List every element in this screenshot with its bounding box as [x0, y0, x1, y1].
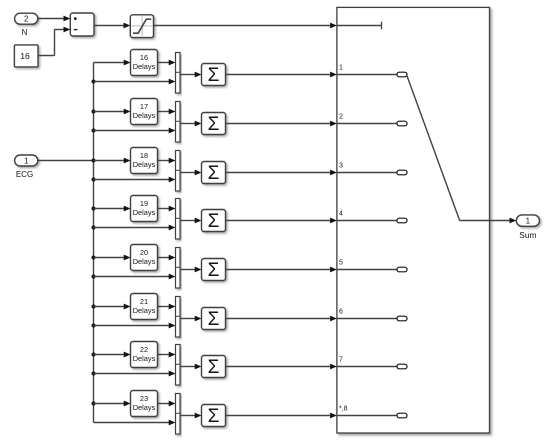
wire ECG to trunk	[38, 160, 94, 162]
switch port 7 line	[337, 366, 397, 368]
switch port 8 line	[337, 415, 397, 417]
wire trunk to delay 17	[94, 109, 131, 115]
wire sum to switch port 1	[226, 72, 337, 78]
wire mux to sum row 3	[180, 170, 202, 176]
switch contact 4	[397, 218, 407, 223]
wire mux to sum row 6	[180, 316, 202, 322]
sum block row 2	[202, 113, 226, 136]
wire mux to sum row 7	[180, 364, 202, 370]
wire trunk to delay 19	[94, 206, 131, 212]
wire delay 21 to mux	[158, 304, 176, 310]
bypass wire row 8	[94, 420, 176, 426]
bypass wire row 6	[94, 323, 176, 329]
svg-text:Σ: Σ	[208, 114, 220, 135]
delay block 16	[131, 50, 158, 76]
switch port label 2	[339, 114, 343, 121]
svg-text:Delays: Delays	[133, 208, 156, 217]
outport 1 (Sum)	[516, 215, 539, 226]
wire constant16 to divide	[38, 27, 70, 56]
delay block 22	[131, 342, 158, 368]
sum block row 5	[202, 259, 226, 282]
switch selector diagonal	[407, 76, 460, 221]
mux bar row 5	[176, 248, 181, 289]
wire delay 23 to mux	[158, 401, 176, 407]
svg-text:Delays: Delays	[133, 62, 156, 71]
svg-text:3: 3	[339, 163, 343, 170]
sum block row 8	[202, 405, 226, 428]
wire delay 20 to mux	[158, 255, 176, 261]
switch contact 5	[397, 267, 407, 272]
svg-text:Delays: Delays	[133, 111, 156, 120]
switch contact 7	[397, 364, 407, 369]
svg-text:Σ: Σ	[208, 65, 220, 86]
wire inport2 to divide	[38, 16, 71, 22]
svg-text:Delays: Delays	[133, 160, 156, 169]
switch port label 7	[339, 357, 343, 364]
svg-text:22: 22	[140, 345, 148, 354]
wire mux to sum row 1	[180, 72, 202, 78]
mux bar row 8	[176, 394, 181, 435]
svg-text:Sum: Sum	[519, 230, 536, 240]
wire trunk to delay 21	[94, 304, 131, 310]
switch port 1 line	[337, 74, 397, 76]
svg-text:N: N	[22, 28, 28, 37]
svg-text:ECG: ECG	[16, 170, 33, 179]
sum block row 6	[202, 308, 226, 331]
switch port 4 line	[337, 220, 397, 222]
switch port 6 line	[337, 318, 397, 320]
svg-text:16: 16	[140, 53, 148, 62]
switch port 2 line	[337, 123, 397, 125]
bypass wire row 2	[94, 128, 176, 134]
wire mux to sum row 8	[180, 413, 202, 419]
wire delay 17 to mux	[158, 109, 176, 115]
switch contact 2	[397, 121, 407, 126]
wire mux to sum row 4	[180, 218, 202, 224]
svg-text:20: 20	[140, 248, 148, 257]
inport 2 (N)	[15, 13, 38, 24]
svg-text:19: 19	[140, 199, 148, 208]
wire mux to sum row 2	[180, 121, 202, 127]
switch control line	[337, 22, 382, 30]
mux bar row 7	[176, 345, 181, 386]
svg-text:1: 1	[24, 156, 29, 165]
mux bar row 1	[176, 53, 181, 94]
svg-text:Delays: Delays	[133, 306, 156, 315]
wire delay 18 to mux	[158, 158, 176, 164]
switch contact 3	[397, 170, 407, 175]
svg-text:Σ: Σ	[208, 211, 220, 232]
svg-text:Σ: Σ	[208, 406, 220, 427]
saturation block	[130, 15, 153, 38]
trunk wire vertical	[93, 63, 95, 423]
svg-text:23: 23	[140, 394, 148, 403]
wire saturation to switch control	[154, 23, 337, 29]
svg-text:17: 17	[140, 102, 148, 111]
wire mux to sum row 5	[180, 267, 202, 273]
svg-text:5: 5	[339, 260, 343, 267]
svg-text:21: 21	[140, 297, 148, 306]
svg-text:Σ: Σ	[208, 357, 220, 378]
svg-text:1: 1	[526, 217, 531, 226]
wire delay 16 to mux	[158, 60, 176, 66]
label ECG	[16, 170, 33, 179]
wire sum to switch port 4	[226, 218, 337, 224]
wire sum to switch port 2	[226, 121, 337, 127]
label Sum	[519, 230, 536, 240]
svg-text:Delays: Delays	[133, 354, 156, 363]
sum block row 4	[202, 210, 226, 233]
wire sum to switch port 5	[226, 267, 337, 273]
switch port label 6	[339, 309, 343, 316]
wire delay 22 to mux	[158, 352, 176, 358]
wire sum to switch port 8	[226, 413, 337, 419]
svg-text:Delays: Delays	[133, 257, 156, 266]
delay block 19	[131, 196, 158, 222]
svg-text:4: 4	[339, 211, 343, 218]
mux bar row 6	[176, 297, 181, 338]
svg-text:2: 2	[339, 114, 343, 121]
mux bar row 3	[176, 151, 181, 192]
label N	[22, 28, 28, 37]
wire sum to switch port 6	[226, 316, 337, 322]
wire trunk to delay 16	[94, 60, 131, 66]
svg-text:Σ: Σ	[208, 260, 220, 281]
switch port 3 line	[337, 172, 397, 174]
inport 1 (ECG)	[15, 155, 38, 166]
mux bar row 4	[176, 199, 181, 240]
svg-text:Delays: Delays	[133, 403, 156, 412]
trunk junction dots	[92, 80, 96, 406]
svg-text:1: 1	[339, 65, 343, 72]
delay block 18	[131, 148, 158, 174]
bypass wire row 5	[94, 274, 176, 280]
switch output line inside	[460, 220, 490, 222]
switch port label 3	[339, 163, 343, 170]
switch contact 6	[397, 316, 407, 321]
svg-text:16: 16	[20, 51, 30, 61]
switch port label *,8	[339, 406, 348, 413]
wire trunk to delay 22	[94, 352, 131, 358]
bypass wire row 3	[94, 177, 176, 183]
sum block row 7	[202, 356, 226, 379]
switch port label 5	[339, 260, 343, 267]
svg-text:7: 7	[339, 357, 343, 364]
svg-text:*,8: *,8	[339, 406, 348, 413]
switch port label 4	[339, 211, 343, 218]
switch contact 8	[397, 413, 407, 418]
wire sum to switch port 3	[226, 170, 337, 176]
svg-text:6: 6	[339, 309, 343, 316]
constant 16	[14, 45, 38, 67]
divide block	[70, 13, 94, 36]
multiport switch block	[337, 7, 490, 433]
bypass wire row 4	[94, 225, 176, 231]
delay block 21	[131, 294, 158, 320]
svg-text:2: 2	[24, 15, 29, 24]
svg-text:Σ: Σ	[208, 309, 220, 330]
bypass wire row 7	[94, 371, 176, 377]
mux bar row 2	[176, 102, 181, 143]
wire trunk to delay 18	[94, 158, 131, 164]
wire divide to saturation	[94, 23, 130, 29]
svg-text:18: 18	[140, 151, 148, 160]
sum block row 3	[202, 162, 226, 185]
bypass wire row 1	[94, 79, 176, 85]
switch port label 1	[339, 65, 343, 72]
wire trunk to delay 20	[94, 255, 131, 261]
wire sum to switch port 7	[226, 364, 337, 370]
wire delay 19 to mux	[158, 206, 176, 212]
switch contact 1	[397, 72, 407, 77]
wire switch to outport	[490, 218, 517, 224]
sum block row 1	[202, 64, 226, 87]
delay block 23	[131, 391, 158, 417]
switch port 5 line	[337, 269, 397, 271]
wire trunk to delay 23	[94, 401, 131, 407]
delay block 20	[131, 245, 158, 271]
svg-text:Σ: Σ	[208, 163, 220, 184]
delay block 17	[131, 99, 158, 125]
